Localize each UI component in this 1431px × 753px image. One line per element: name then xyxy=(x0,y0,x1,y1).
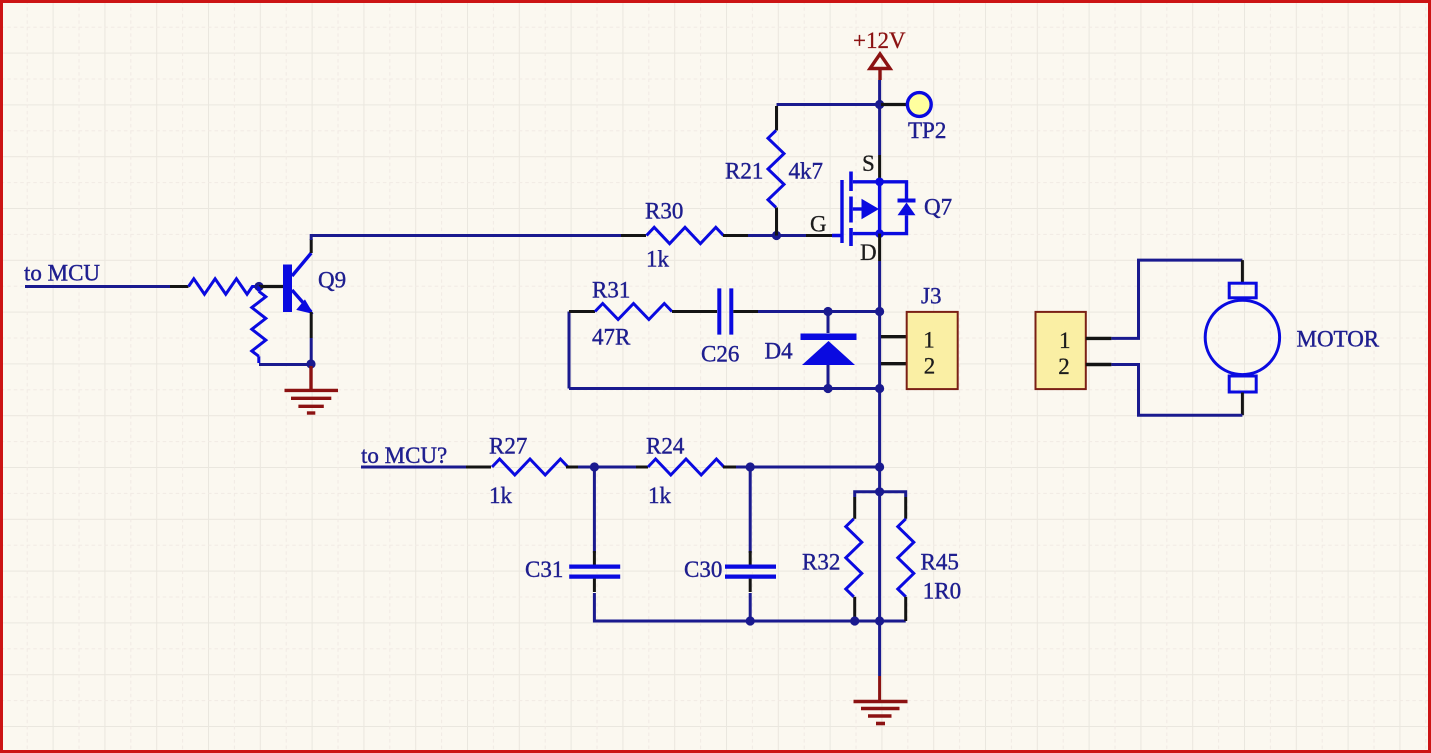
pin C31 top xyxy=(593,551,596,565)
label R24 xyxy=(646,434,685,459)
connector motor side xyxy=(1036,312,1086,389)
pin R21 bottom xyxy=(775,208,778,236)
label Q7 xyxy=(924,195,952,220)
pin R45 bottom xyxy=(904,597,907,621)
node TP2 junction xyxy=(875,100,884,109)
svg-text:1: 1 xyxy=(923,328,935,353)
pin J3 pin2 lead xyxy=(881,362,907,365)
pin R31 right to C26 xyxy=(672,310,717,313)
svg-text:2: 2 xyxy=(1058,354,1070,379)
pin R27 left xyxy=(466,466,491,469)
wire snubber bottom xyxy=(569,387,880,390)
label R31 xyxy=(592,278,630,303)
resistor R21 pulldown pin top xyxy=(775,106,778,131)
svg-text:R45: R45 xyxy=(921,550,959,575)
wire to MCU to base resistor xyxy=(25,285,189,288)
label 4k7 of R21 xyxy=(789,159,824,184)
wire R24 to drain rail xyxy=(736,466,880,469)
svg-text:C30: C30 xyxy=(684,557,722,582)
svg-text:D: D xyxy=(860,240,877,265)
label MOTOR xyxy=(1297,327,1380,352)
pin C31 bottom xyxy=(593,579,596,592)
svg-text:Q7: Q7 xyxy=(924,195,952,220)
svg-text:to MCU: to MCU xyxy=(24,261,100,286)
svg-text:4k7: 4k7 xyxy=(789,159,824,184)
pin emitter of Q9 xyxy=(310,312,313,338)
node C30 top junction xyxy=(746,462,755,471)
resistor R21 xyxy=(768,131,784,208)
node gate junction xyxy=(772,231,781,240)
node R32 bottom junction xyxy=(850,616,859,625)
resistor R32 xyxy=(846,519,862,597)
motor M1 xyxy=(1205,283,1279,392)
svg-text:G: G xyxy=(810,212,827,237)
mosfet Q7 xyxy=(832,172,916,247)
svg-text:MOTOR: MOTOR xyxy=(1297,327,1380,352)
wire collector to R30 xyxy=(311,236,621,241)
svg-text:1k: 1k xyxy=(648,483,672,508)
pin C30 bottom xyxy=(749,579,752,592)
svg-text:1k: 1k xyxy=(646,247,670,272)
wire top from R21 to +12V rail xyxy=(777,103,881,106)
node C30 bottom junction xyxy=(746,616,755,625)
wire R32 R45 top bar xyxy=(855,492,906,497)
label D pin xyxy=(860,240,877,265)
wire connector pin1 to motor top xyxy=(1111,260,1242,338)
pin R24 right xyxy=(723,466,736,469)
wire pulldown to emitter node xyxy=(259,363,311,366)
node drain snubber bottom xyxy=(875,384,884,393)
wire C31 branch down xyxy=(593,467,596,553)
svg-text:R21: R21 xyxy=(725,159,763,184)
diode D4 xyxy=(801,312,857,389)
label J3 xyxy=(921,284,941,309)
label 1k of R24 xyxy=(648,483,672,508)
node emitter junction xyxy=(306,359,315,368)
label 1k of R30 xyxy=(646,247,670,272)
connector J3 xyxy=(907,312,958,389)
svg-text:2: 2 xyxy=(924,354,936,379)
wire +12V to TP2 node xyxy=(878,80,881,155)
label 1k of R27 xyxy=(489,483,513,508)
capacitor C31 xyxy=(569,567,620,577)
wire C31 to bottom xyxy=(594,593,905,621)
transistor Q9 xyxy=(283,253,312,313)
node drain snubber top xyxy=(875,307,884,316)
pin motor bottom xyxy=(1241,393,1244,416)
capacitor C30 xyxy=(725,567,776,577)
test point TP2 xyxy=(907,93,931,117)
net label to MCU xyxy=(24,261,100,286)
node C31 top junction xyxy=(590,462,599,471)
svg-text:47R: 47R xyxy=(592,325,631,350)
resistor R45 xyxy=(898,519,914,597)
wire gate pin black xyxy=(806,234,832,237)
label R45 xyxy=(921,550,959,575)
wire emitter down xyxy=(310,338,313,365)
pin R30 left xyxy=(621,234,646,237)
label D4 xyxy=(765,339,794,364)
label 47R of R31 xyxy=(592,325,631,350)
svg-text:+12V: +12V xyxy=(853,28,906,53)
pin base of Q9 xyxy=(259,285,283,288)
svg-text:D4: D4 xyxy=(765,339,794,364)
svg-text:to MCU?: to MCU? xyxy=(361,443,447,468)
pin number 2 of J3 xyxy=(924,354,936,379)
resistor R24 xyxy=(648,459,724,475)
svg-text:C31: C31 xyxy=(525,557,563,582)
wire C26 to drain rail xyxy=(758,310,880,313)
resistor pulldown at Q9 base xyxy=(252,287,266,364)
node D4 bottom xyxy=(823,384,832,393)
svg-text:R30: R30 xyxy=(645,199,683,224)
pin R32 bottom xyxy=(853,597,856,619)
pin TP2 xyxy=(881,103,907,106)
node ground junction xyxy=(875,616,884,625)
pin number 1 of motor connector xyxy=(1059,328,1071,353)
pin R32 top xyxy=(853,497,856,519)
label R27 xyxy=(489,434,527,459)
wire R27 to R24 xyxy=(578,466,636,469)
wire main vertical drain rail xyxy=(878,261,881,676)
svg-text:R27: R27 xyxy=(489,434,527,459)
node rail to R32 R45 xyxy=(875,487,884,496)
wire C30 branch down xyxy=(749,467,752,553)
pin lead 2 of motor connector xyxy=(1086,363,1112,366)
svg-text:Q9: Q9 xyxy=(318,268,346,293)
pin C26 right xyxy=(733,310,758,313)
label R30 xyxy=(645,199,683,224)
svg-text:R31: R31 xyxy=(592,278,630,303)
wire to MCU? to R27 xyxy=(361,466,466,469)
svg-text:1k: 1k xyxy=(489,483,513,508)
pin number 2 of motor connector xyxy=(1058,354,1070,379)
capacitor C26 xyxy=(719,288,731,334)
label 1R0 of R45 xyxy=(923,579,961,604)
pin R45 top xyxy=(904,497,907,519)
label Q9 xyxy=(318,268,346,293)
label R21 xyxy=(725,159,763,184)
svg-text:R24: R24 xyxy=(646,434,685,459)
resistor R27 xyxy=(492,459,568,475)
wire snubber left vertical xyxy=(568,312,571,389)
node sense wire to rail xyxy=(875,462,884,471)
label R32 xyxy=(802,550,840,575)
pin R31 left xyxy=(569,310,595,313)
svg-text:J3: J3 xyxy=(921,284,941,309)
pin R24 left xyxy=(636,466,648,469)
svg-text:1: 1 xyxy=(1059,328,1071,353)
svg-text:R32: R32 xyxy=(802,550,840,575)
label C30 xyxy=(684,557,722,582)
svg-text:TP2: TP2 xyxy=(908,118,946,143)
resistor base (unlabeled) xyxy=(189,279,259,294)
node base junction xyxy=(254,282,263,291)
pin S of Q7 xyxy=(878,155,881,182)
power port +12V xyxy=(853,28,906,80)
pin D of Q7 xyxy=(878,234,881,261)
wire motor bottom to connector pin2 xyxy=(1111,365,1242,416)
pin C30 top xyxy=(749,551,752,565)
pin R30 right xyxy=(723,234,748,237)
label C31 xyxy=(525,557,563,582)
label TP2 xyxy=(908,118,946,143)
pin motor top xyxy=(1241,260,1244,283)
ground under Q9 xyxy=(285,366,339,413)
pin R27 right xyxy=(566,466,578,469)
pin J3 pin1 lead xyxy=(881,335,907,338)
label C26 xyxy=(701,342,739,367)
node D4 top xyxy=(823,307,832,316)
pin number 1 of J3 xyxy=(923,328,935,353)
label S pin xyxy=(862,151,875,176)
svg-text:C26: C26 xyxy=(701,342,739,367)
resistor R31 xyxy=(595,304,672,320)
svg-text:S: S xyxy=(862,151,875,176)
label G pin xyxy=(810,212,827,237)
svg-text:1R0: 1R0 xyxy=(923,579,961,604)
ground bottom xyxy=(854,676,908,724)
pin collector of Q9 xyxy=(310,239,313,253)
net label to MCU? xyxy=(361,443,447,468)
wire C30 to bottom xyxy=(749,593,752,621)
wire R30 to gate node xyxy=(748,234,806,237)
pin lead 1 of motor connector xyxy=(1086,337,1112,340)
resistor R30 xyxy=(647,227,724,243)
